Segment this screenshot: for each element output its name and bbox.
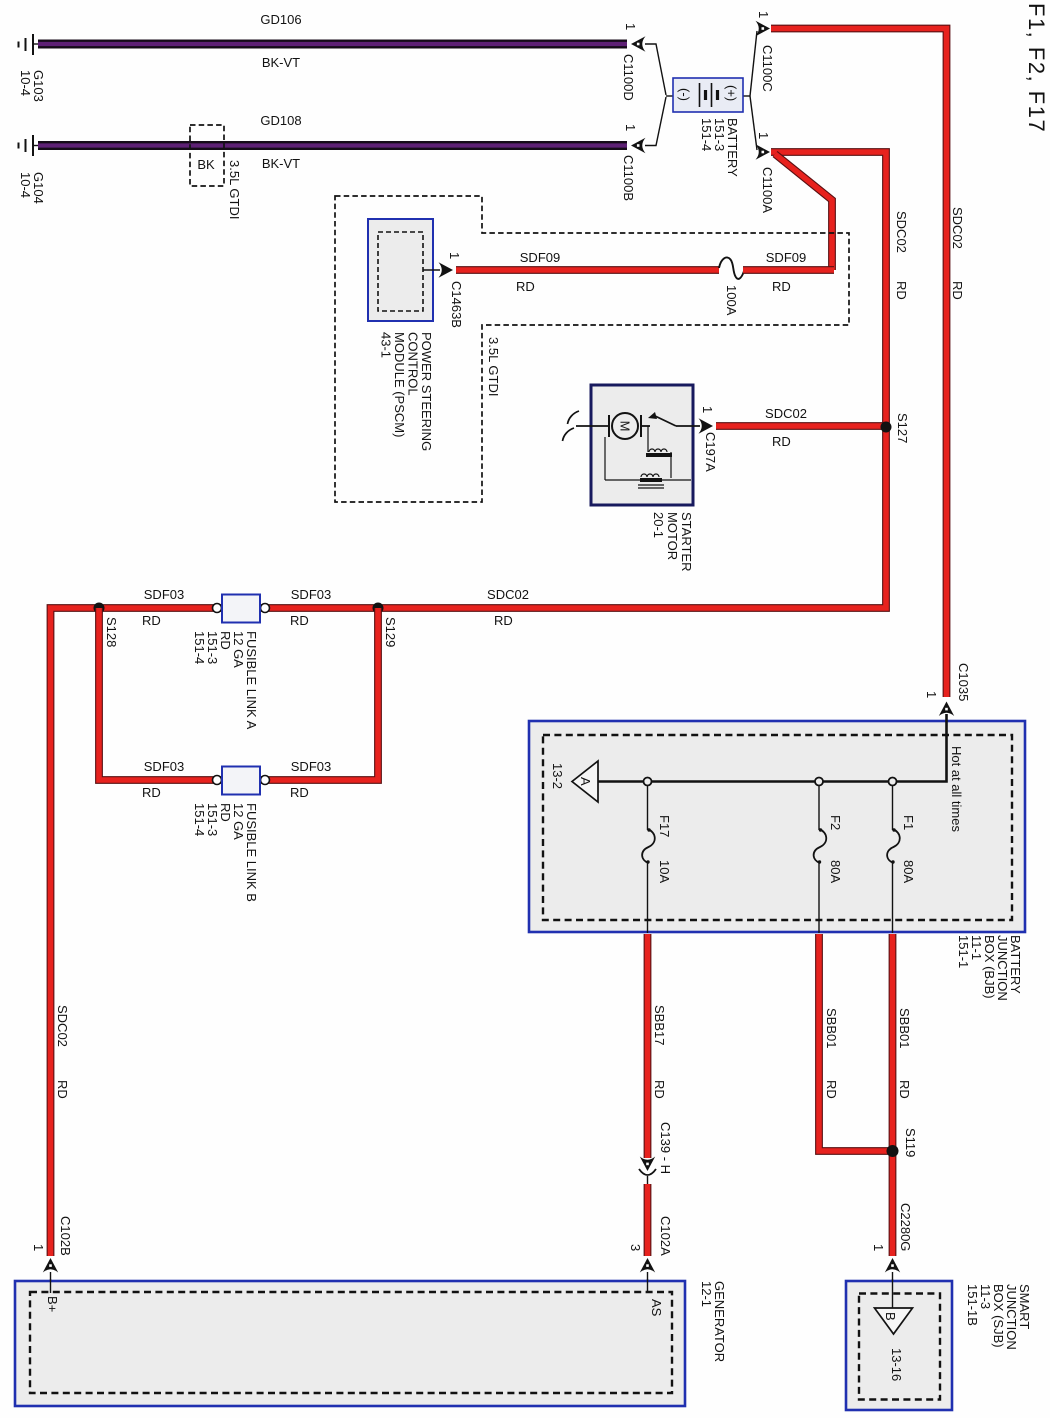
junction F2	[815, 778, 823, 786]
starter internals	[563, 411, 701, 488]
fusible link B	[213, 767, 270, 795]
svg-text:C139 - H: C139 - H	[658, 1122, 673, 1174]
inline connector C139 - H	[640, 1157, 655, 1172]
svg-text:BK-VT: BK-VT	[262, 156, 300, 171]
svg-text:F1: F1	[901, 815, 916, 830]
svg-text:BK: BK	[197, 157, 215, 172]
svg-text:RD: RD	[824, 1080, 839, 1099]
svg-text:SDF03: SDF03	[291, 759, 331, 774]
svg-text:RD: RD	[142, 785, 161, 800]
wire SDF09 RD right segment	[743, 266, 834, 274]
triangle A 13-2	[572, 761, 598, 802]
connector arrow C1100B	[631, 138, 646, 153]
wire SDF09 branch (battery to PSCM fuse)	[775, 154, 832, 270]
svg-text:1: 1	[31, 1244, 46, 1251]
svg-text:S129: S129	[383, 617, 398, 647]
svg-text:C2280G: C2280G	[898, 1203, 913, 1251]
svg-text:43-1: 43-1	[379, 332, 394, 358]
svg-text:RD: RD	[494, 613, 513, 628]
svg-text:SDC02: SDC02	[950, 207, 965, 249]
generator box	[15, 1281, 685, 1406]
svg-text:S128: S128	[104, 617, 119, 647]
splice S119	[887, 1145, 899, 1157]
svg-text:1: 1	[924, 691, 939, 698]
splice S129	[373, 603, 384, 614]
connector arrow C1100D	[631, 36, 646, 51]
svg-text:100A: 100A	[724, 285, 739, 316]
svg-text:1: 1	[623, 124, 638, 131]
svg-text:SBB01: SBB01	[897, 1008, 912, 1048]
svg-text:C1100D: C1100D	[621, 54, 636, 101]
bus wire inside BJB	[598, 714, 947, 782]
svg-text:A: A	[578, 777, 593, 786]
svg-text:C1100B: C1100B	[621, 155, 636, 201]
svg-text:RD: RD	[652, 1080, 667, 1099]
svg-text:151-4: 151-4	[699, 118, 714, 151]
svg-text:SDF03: SDF03	[144, 587, 184, 602]
svg-text:10A: 10A	[657, 860, 672, 883]
connector arrow C1100A	[756, 144, 771, 159]
svg-text:SBB01: SBB01	[824, 1008, 839, 1048]
svg-text:RD: RD	[55, 1080, 70, 1099]
svg-text:13-16: 13-16	[889, 1348, 904, 1381]
svg-text:SDC02: SDC02	[894, 211, 909, 253]
svg-text:1: 1	[756, 132, 771, 139]
svg-text:RD: RD	[516, 279, 535, 294]
svg-text:SDC02: SDC02	[55, 1005, 70, 1047]
svg-text:C1463B: C1463B	[449, 281, 464, 328]
svg-text:C197A: C197A	[703, 432, 718, 472]
svg-text:1: 1	[700, 406, 715, 413]
connector arrow C102B	[43, 1258, 58, 1273]
svg-text:F1, F2, F17: F1, F2, F17	[1024, 3, 1049, 133]
triangle B 13-16	[875, 1308, 913, 1334]
wire battery leads	[645, 31, 757, 150]
svg-text:C1035: C1035	[956, 663, 971, 701]
wire SBB01 RD (F1 through S119 to SJB)	[889, 934, 897, 1256]
svg-text:RD: RD	[290, 613, 309, 628]
svg-text:3.5L GTDI: 3.5L GTDI	[486, 337, 501, 396]
svg-text:80A: 80A	[901, 860, 916, 883]
junction F1	[889, 778, 897, 786]
svg-text:SBB17: SBB17	[652, 1005, 667, 1045]
svg-text:F2: F2	[828, 815, 843, 830]
battery	[673, 78, 743, 112]
svg-text:SDC02: SDC02	[765, 406, 807, 421]
svg-text:151-1B: 151-1B	[965, 1284, 980, 1326]
ground G103	[19, 34, 40, 55]
BJB inner dashed (hot at all times)	[543, 735, 1012, 920]
dashed region 3.5L GTDI (PSCM)	[335, 196, 849, 502]
wire GD108 BK-VT	[38, 141, 627, 150]
wire SDC02 RD (from C1100C to C1035)	[771, 29, 947, 698]
svg-text:B: B	[883, 1312, 898, 1321]
ground G104	[19, 135, 40, 156]
svg-text:(-): (-)	[677, 88, 692, 101]
wire SBB17 RD (F17 to generator)	[644, 934, 652, 1158]
svg-text:80A: 80A	[828, 860, 843, 883]
splice S127	[881, 422, 892, 433]
svg-text:BK-VT: BK-VT	[262, 55, 300, 70]
svg-text:1: 1	[756, 11, 771, 18]
svg-text:SDF09: SDF09	[520, 250, 560, 265]
wire SDC02 RD (starter to S127)	[716, 422, 886, 430]
wire SBB01 RD (F2 to S119)	[819, 934, 893, 1151]
wire PSCM lead	[423, 269, 440, 271]
svg-text:SDF03: SDF03	[291, 587, 331, 602]
svg-text:1: 1	[623, 23, 638, 30]
svg-text:B+: B+	[45, 1296, 60, 1312]
wire SDC02 RD (C1100A to S127 to long run to generator)	[51, 152, 887, 1256]
connector arrow C1035	[939, 702, 954, 717]
svg-text:GD108: GD108	[260, 113, 301, 128]
svg-text:151-4: 151-4	[192, 631, 207, 664]
fuse F17 10A	[647, 785, 649, 830]
svg-text:C1100A: C1100A	[760, 167, 775, 213]
svg-text:SDF09: SDF09	[766, 250, 806, 265]
svg-text:MOTOR: MOTOR	[665, 512, 680, 560]
svg-text:RD: RD	[142, 613, 161, 628]
svg-text:C102A: C102A	[658, 1216, 673, 1256]
svg-text:RD: RD	[897, 1080, 912, 1099]
fusible link A	[213, 595, 270, 623]
wire GD106 BK-VT	[38, 40, 627, 49]
svg-text:SDC02: SDC02	[487, 587, 529, 602]
PSCM module box	[368, 219, 433, 321]
fuse F2 80A	[818, 785, 820, 830]
fuse F1 80A	[892, 785, 894, 830]
splice box BK (3.5L GTDI)	[190, 125, 224, 186]
svg-text:20-1: 20-1	[651, 512, 666, 538]
svg-text:S127: S127	[895, 413, 910, 443]
svg-text:151-4: 151-4	[192, 803, 207, 836]
svg-text:3: 3	[628, 1244, 643, 1251]
splice S128	[94, 603, 105, 614]
svg-text:10-4: 10-4	[18, 70, 33, 96]
svg-text:RD: RD	[950, 281, 965, 300]
svg-text:10-4: 10-4	[18, 172, 33, 198]
svg-text:(+): (+)	[724, 85, 739, 101]
wire SBB17 RD lower	[644, 1184, 652, 1256]
svg-text:STARTER: STARTER	[679, 512, 694, 571]
svg-text:12-1: 12-1	[699, 1281, 714, 1307]
battery junction box BJB	[529, 721, 1025, 932]
connector arrow C1463B	[439, 262, 454, 277]
wire SDF09 RD left segment	[456, 266, 719, 274]
junction F17	[644, 778, 652, 786]
svg-text:C1100C: C1100C	[760, 45, 775, 92]
connector arrow C197A	[699, 418, 714, 433]
svg-text:AS: AS	[649, 1299, 664, 1317]
svg-text:Hot at all times: Hot at all times	[949, 746, 964, 832]
svg-text:RD: RD	[290, 785, 309, 800]
svg-text:3.5L GTDI: 3.5L GTDI	[227, 160, 242, 219]
svg-text:1: 1	[871, 1244, 886, 1251]
svg-text:RD: RD	[772, 279, 791, 294]
wire SDF03 parallel path S128-S129	[99, 608, 378, 780]
svg-text:SDF03: SDF03	[144, 759, 184, 774]
svg-text:RD: RD	[894, 281, 909, 300]
connector arrow C2280G	[885, 1258, 900, 1273]
svg-text:1: 1	[447, 252, 462, 259]
svg-text:RD: RD	[772, 434, 791, 449]
svg-text:13-2: 13-2	[550, 763, 565, 789]
svg-text:M: M	[617, 421, 632, 432]
svg-text:F17: F17	[657, 815, 672, 837]
svg-text:S119: S119	[903, 1128, 918, 1157]
fuse 100A (fusible link symbol)	[719, 257, 744, 278]
smart junction box SJB	[846, 1281, 952, 1410]
svg-text:GD106: GD106	[260, 12, 301, 27]
connector arrow C102A	[640, 1258, 655, 1273]
svg-text:151-1: 151-1	[956, 935, 971, 968]
starter motor box	[591, 385, 693, 505]
connector arrow C1100C	[756, 21, 771, 36]
svg-text:C102B: C102B	[58, 1216, 73, 1256]
